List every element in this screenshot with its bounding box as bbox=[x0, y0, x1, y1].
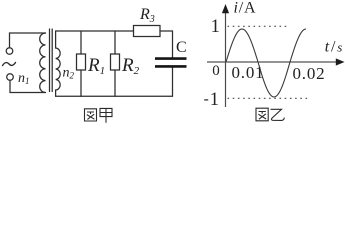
wire R3 right to corner bbox=[160, 31, 173, 57]
secondary coil n2 bbox=[56, 31, 61, 96]
wire R1 branch bbox=[80, 31, 82, 96]
sine curve bbox=[226, 29, 306, 97]
terminal top bbox=[6, 48, 13, 55]
svg-text:1: 1 bbox=[211, 17, 220, 37]
caption tu-yi (figure B) bbox=[256, 108, 284, 121]
y-axis bbox=[225, 10, 227, 107]
svg-text:C: C bbox=[176, 39, 187, 56]
dashed +1 line bbox=[228, 25, 290, 27]
svg-text:n1: n1 bbox=[18, 71, 30, 86]
terminal bottom bbox=[7, 74, 14, 81]
bottom rail bbox=[56, 68, 173, 97]
core line 1 bbox=[49, 29, 51, 92]
primary coil n1 bbox=[40, 33, 46, 93]
caption tu-jia (figure A) bbox=[85, 108, 113, 122]
svg-text:1: 1 bbox=[210, 90, 219, 110]
wire top-left bbox=[10, 33, 46, 48]
wire R2 branch bbox=[114, 31, 116, 96]
x-axis arrowhead bbox=[336, 58, 345, 65]
capacitor C plates bbox=[155, 59, 187, 67]
svg-text:R2: R2 bbox=[121, 55, 140, 77]
y-axis arrowhead bbox=[222, 4, 229, 13]
top rail bbox=[56, 30, 134, 32]
svg-text:0.02: 0.02 bbox=[293, 64, 326, 83]
resistor R1 bbox=[77, 54, 86, 70]
svg-text:0.01: 0.01 bbox=[232, 63, 265, 82]
resistor R2 bbox=[111, 54, 120, 70]
dashed -1 line bbox=[228, 97, 311, 99]
resistor R3 bbox=[134, 26, 161, 37]
svg-text:i/A: i/A bbox=[234, 0, 257, 17]
svg-text:0: 0 bbox=[212, 63, 220, 79]
svg-text:-: - bbox=[204, 90, 209, 107]
svg-text:R3: R3 bbox=[139, 6, 155, 25]
x-axis bbox=[207, 61, 338, 63]
svg-text:t/s: t/s bbox=[325, 39, 344, 56]
svg-text:n2: n2 bbox=[63, 66, 75, 81]
wire bottom-left bbox=[10, 80, 46, 92]
AC tilde bbox=[3, 63, 16, 66]
svg-text:R1: R1 bbox=[87, 55, 105, 77]
core line 2 bbox=[51, 29, 53, 92]
